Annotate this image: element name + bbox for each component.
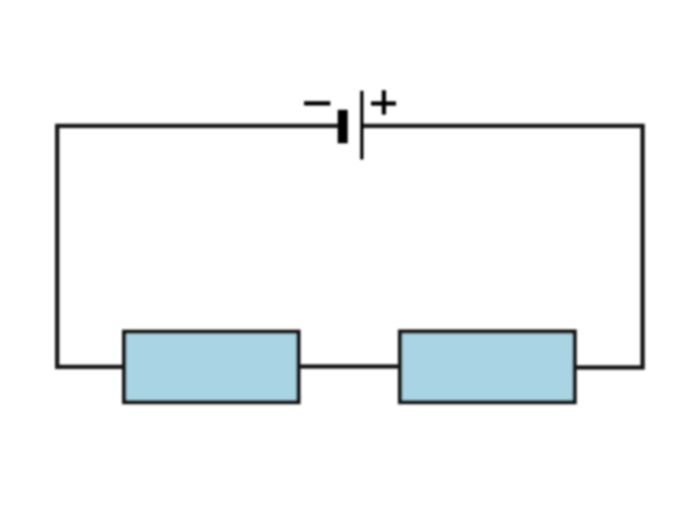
wire [361,126,643,368]
resistor R2 [400,332,574,403]
resistor R1 [124,332,298,402]
wire [57,126,339,367]
battery minus label [304,101,330,105]
battery B1 positive plate [360,91,363,160]
wire [297,364,400,368]
battery B1 negative plate [338,110,348,144]
battery plus label [371,90,396,114]
